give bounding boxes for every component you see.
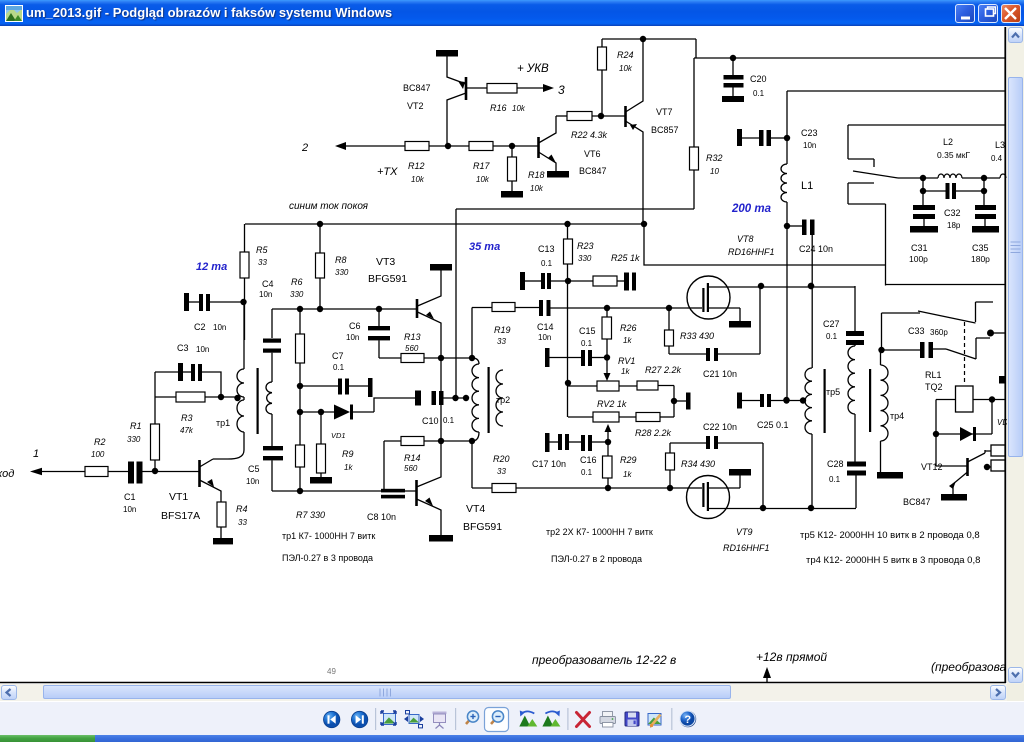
- svg-text:?: ?: [684, 714, 691, 726]
